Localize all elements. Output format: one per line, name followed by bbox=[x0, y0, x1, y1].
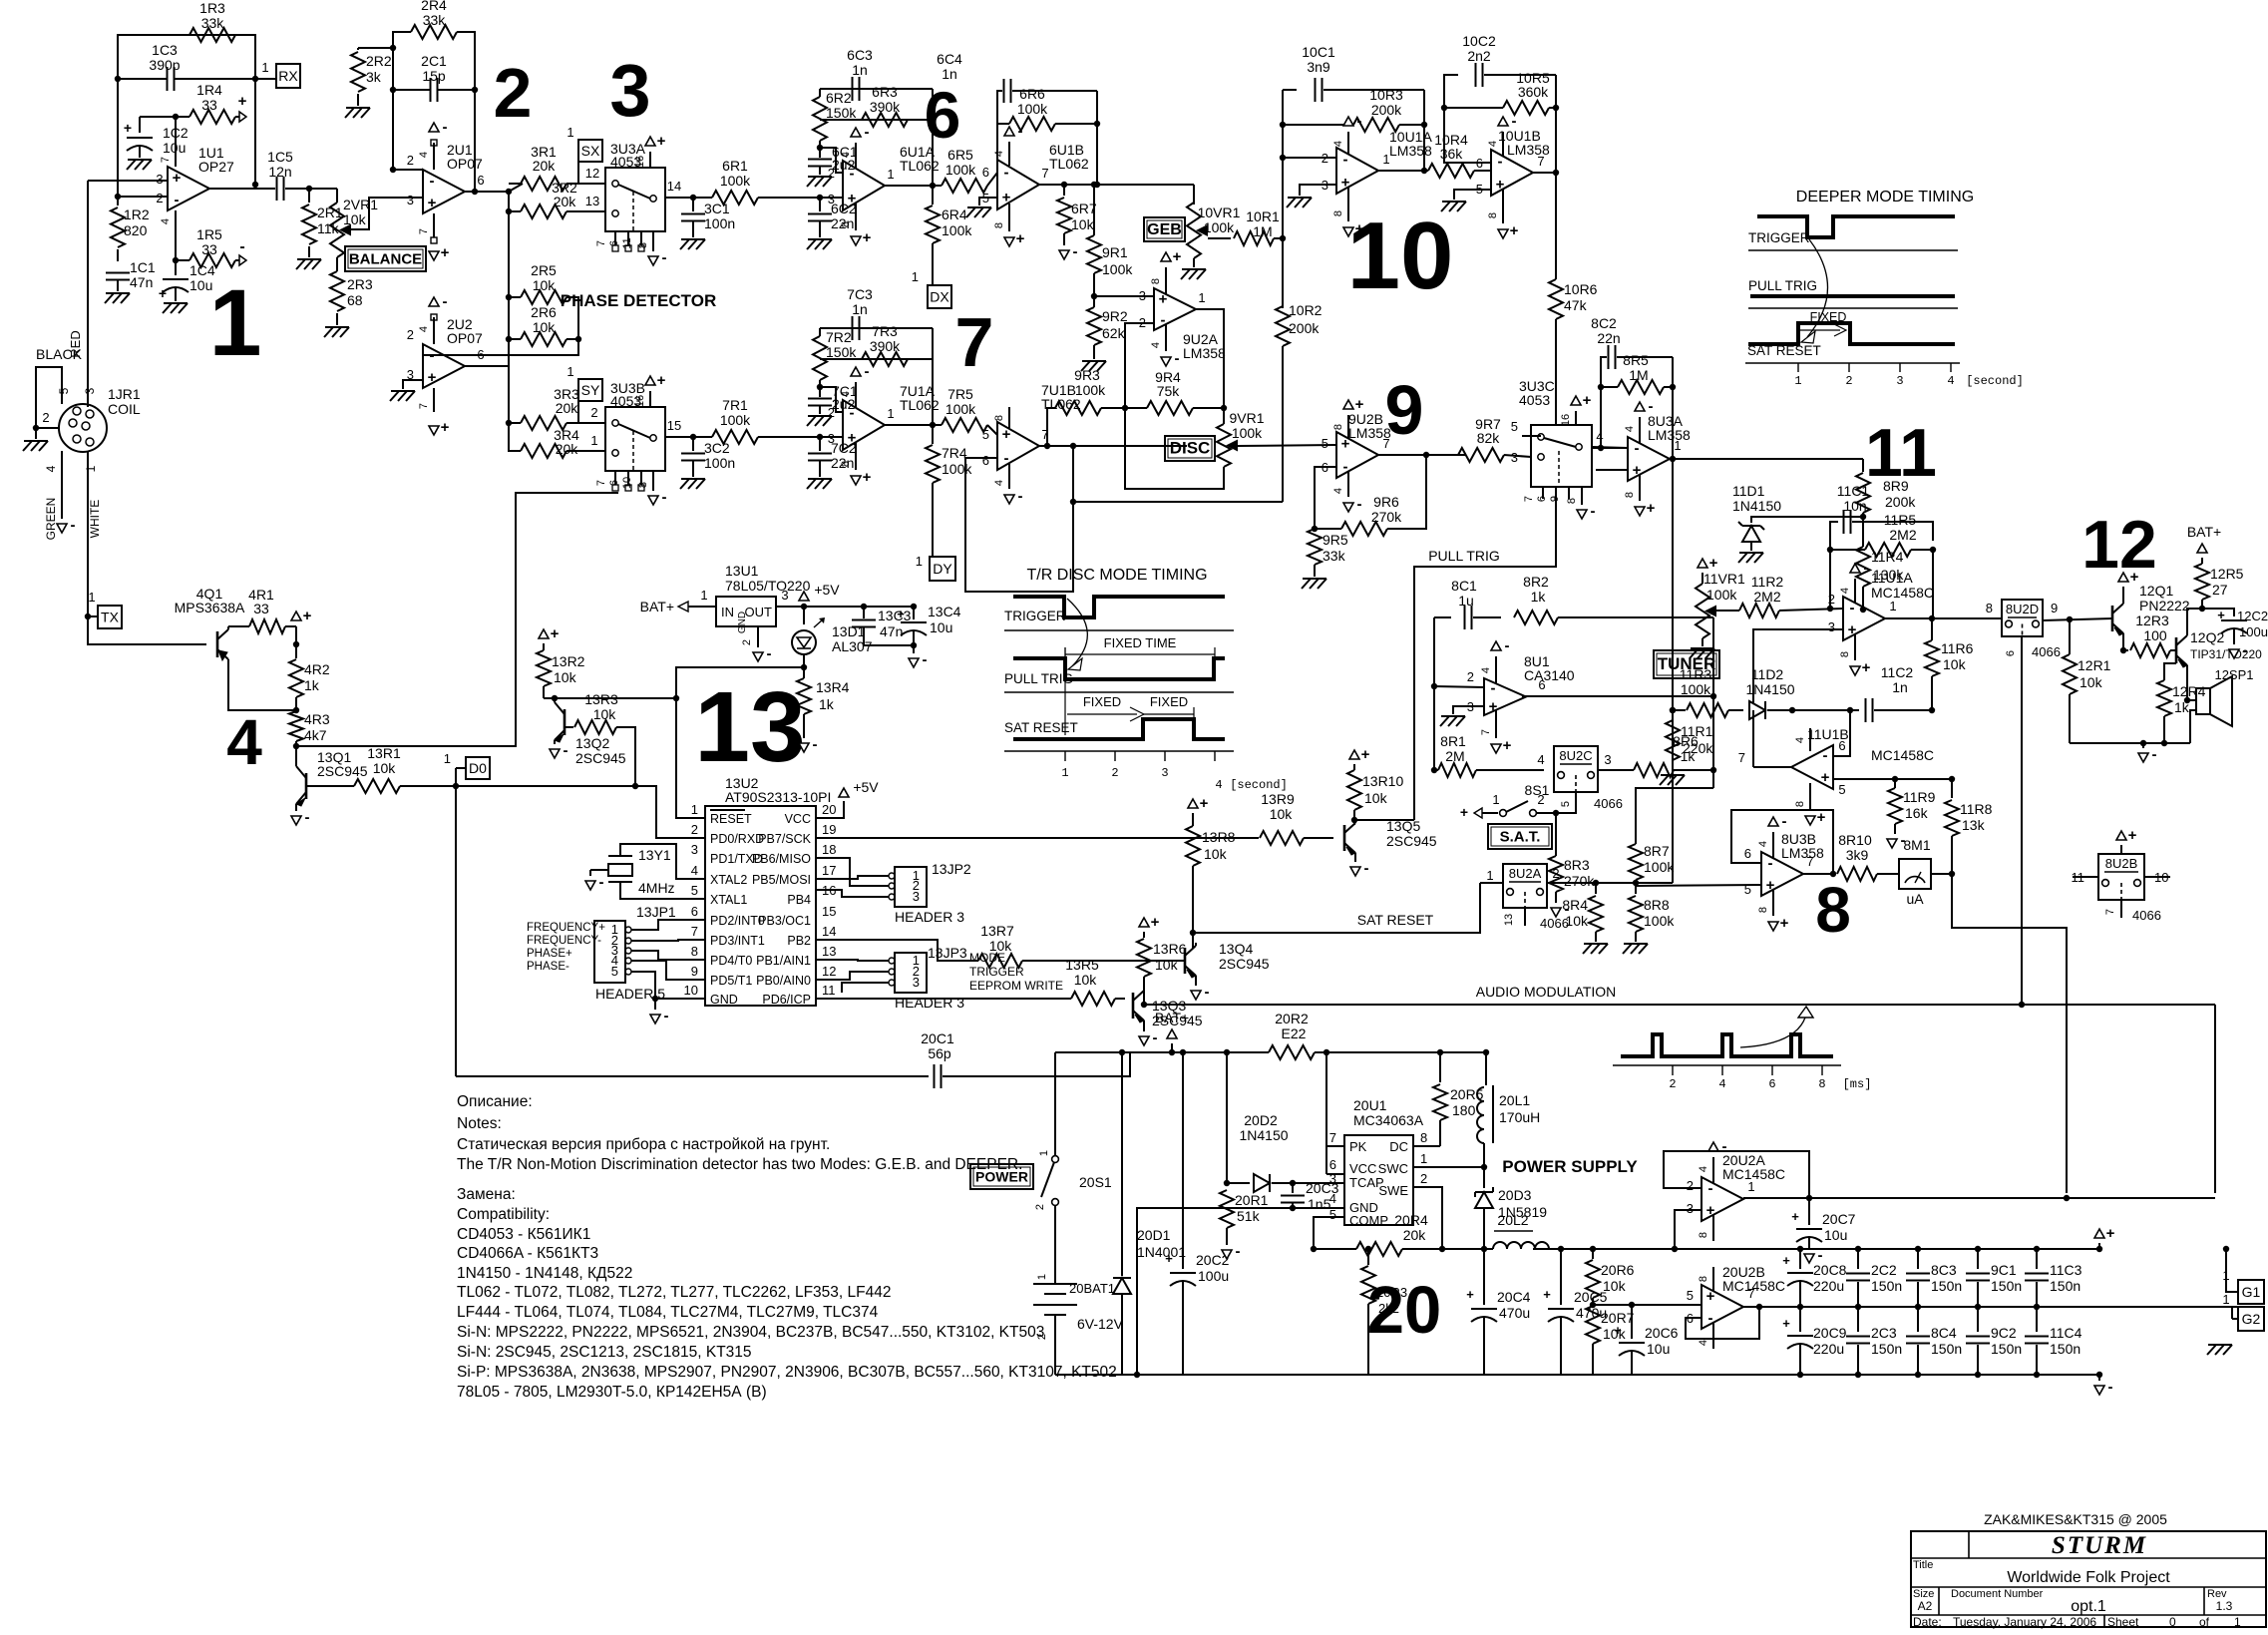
svg-text:11R5: 11R5 bbox=[1884, 512, 1917, 528]
svg-text:+: + bbox=[428, 369, 437, 386]
pin7 power stub 1U1 bbox=[175, 155, 177, 167]
power stub 11U1A bottom bbox=[1854, 634, 1856, 660]
node 6R2 bottom bbox=[819, 141, 821, 148]
svg-text:PB1/AIN1: PB1/AIN1 bbox=[756, 954, 811, 968]
op-amp 20U2B MC1458C bbox=[1701, 1285, 1743, 1329]
svg-text:2: 2 bbox=[1467, 669, 1474, 684]
node 10R1 10R2 bbox=[1280, 235, 1286, 241]
wire 3U3C out pin4 bbox=[1592, 447, 1628, 448]
svg-text:+: + bbox=[1173, 248, 1182, 265]
node 8R9 11D1 bbox=[1860, 514, 1866, 520]
wire 2U1 output bbox=[465, 191, 509, 193]
svg-text:1: 1 bbox=[887, 406, 894, 421]
capacitor 10C2 bbox=[1475, 63, 1477, 87]
svg-text:8: 8 bbox=[1487, 212, 1499, 218]
resistor 13R5 bbox=[1071, 992, 1115, 1006]
svg-text:10k: 10k bbox=[373, 760, 397, 776]
svg-text:+: + bbox=[863, 469, 872, 486]
capacitor 7C1 bbox=[819, 387, 821, 397]
svg-text:8: 8 bbox=[840, 221, 852, 227]
svg-text:5: 5 bbox=[1687, 1288, 1694, 1303]
svg-text:2: 2 bbox=[590, 405, 597, 420]
pot 9VR1 DISC bbox=[1223, 408, 1225, 424]
svg-text:6R4: 6R4 bbox=[942, 206, 967, 222]
svg-text:20k: 20k bbox=[556, 400, 579, 416]
header 13JP2 bbox=[895, 867, 927, 907]
svg-text:COMP: COMP bbox=[1349, 1213, 1388, 1228]
power arrow 3U3C minus bbox=[1577, 510, 1587, 519]
svg-text:20: 20 bbox=[822, 802, 836, 817]
svg-text:-: - bbox=[175, 192, 180, 208]
power arrow minus bus bbox=[2098, 1375, 2100, 1381]
capacitor 20C8 bbox=[1797, 1246, 1803, 1252]
pull trig waveform deeper bbox=[1750, 294, 1955, 298]
svg-text:-: - bbox=[865, 363, 870, 380]
svg-text:BALANCE: BALANCE bbox=[349, 251, 422, 268]
svg-text:2: 2 bbox=[1552, 866, 1559, 881]
wire 10R2 tail bbox=[1073, 501, 1283, 503]
svg-text:13: 13 bbox=[585, 194, 599, 208]
svg-text:PULL TRIG: PULL TRIG bbox=[1748, 278, 1817, 293]
svg-text:170uH: 170uH bbox=[1499, 1109, 1540, 1125]
wire 20R6 to 20U2B pin5 bbox=[1593, 1304, 1701, 1306]
resistor 6R1 bbox=[693, 197, 712, 199]
svg-text:390p: 390p bbox=[149, 57, 180, 73]
power pin16 3U3C bbox=[1575, 411, 1577, 425]
capacitor 20C4 bbox=[1483, 1249, 1485, 1305]
svg-text:2R2: 2R2 bbox=[366, 53, 392, 69]
resistor 13R2 bbox=[537, 650, 551, 686]
svg-text:OUT: OUT bbox=[745, 605, 773, 619]
trigger waveform disc bbox=[1013, 597, 1225, 617]
svg-text:3n9: 3n9 bbox=[1307, 59, 1330, 75]
svg-text:1n: 1n bbox=[852, 301, 868, 317]
svg-text:7: 7 bbox=[1537, 154, 1544, 169]
svg-text:2: 2 bbox=[1322, 151, 1328, 166]
svg-text:+: + bbox=[657, 372, 666, 389]
wire crystal top bbox=[620, 844, 705, 879]
ground coil bbox=[35, 428, 37, 439]
ground mcu bbox=[654, 999, 656, 1010]
svg-text:+: + bbox=[428, 195, 437, 211]
svg-text:-: - bbox=[1357, 113, 1362, 130]
svg-text:Si-P: MPS3638A, 2N3638, MPS290: Si-P: MPS3638A, 2N3638, MPS2907, PN2907,… bbox=[457, 1364, 1117, 1381]
svg-text:6C4: 6C4 bbox=[937, 51, 962, 67]
svg-text:4: 4 bbox=[44, 465, 58, 472]
svg-text:8: 8 bbox=[1839, 651, 1851, 657]
svg-text:+5V: +5V bbox=[814, 582, 840, 598]
power stub 8U3A top bbox=[1639, 417, 1641, 443]
svg-text:9: 9 bbox=[2051, 601, 2058, 615]
svg-text:2C1: 2C1 bbox=[421, 53, 447, 69]
capacitor 2C1 bbox=[430, 78, 432, 102]
svg-text:-: - bbox=[239, 238, 244, 255]
svg-text:1: 1 bbox=[1486, 868, 1493, 883]
svg-text:7: 7 bbox=[1806, 854, 1813, 869]
wire 7 pin2 bbox=[820, 387, 843, 412]
svg-text:7: 7 bbox=[595, 480, 607, 486]
svg-text:13Y1: 13Y1 bbox=[638, 847, 671, 863]
svg-text:100k: 100k bbox=[945, 162, 976, 178]
svg-text:9C1: 9C1 bbox=[1991, 1262, 2017, 1278]
wire 13Q4 emitter bbox=[1195, 979, 1197, 986]
svg-text:PHASE DETECTOR: PHASE DETECTOR bbox=[561, 291, 717, 310]
resistor 13R10 bbox=[1347, 770, 1361, 810]
svg-text:10k: 10k bbox=[1565, 913, 1589, 929]
svg-text:PB0/AIN0: PB0/AIN0 bbox=[756, 974, 811, 988]
svg-text:13: 13 bbox=[822, 944, 836, 959]
svg-text:220u: 220u bbox=[1813, 1341, 1844, 1357]
svg-text:20BAT1: 20BAT1 bbox=[1069, 1281, 1115, 1296]
op-amp 8U1 CA3140 bbox=[1484, 678, 1526, 715]
svg-text:10k: 10k bbox=[1155, 957, 1179, 973]
svg-text:4053: 4053 bbox=[1519, 392, 1550, 408]
svg-text:1: 1 bbox=[2234, 1615, 2241, 1629]
svg-text:3C2: 3C2 bbox=[704, 440, 730, 456]
wire 10U1A output bbox=[1378, 170, 1428, 172]
analog switch 8U2B 4066 bbox=[2116, 831, 2126, 840]
svg-text:1n5: 1n5 bbox=[1308, 1196, 1331, 1212]
svg-text:13k: 13k bbox=[1962, 817, 1986, 833]
wire pin14 to 13R7 bbox=[816, 940, 978, 961]
svg-text:10k: 10k bbox=[593, 706, 617, 722]
analog switch 8U2A 4066 bbox=[1503, 864, 1547, 908]
svg-text:VCC: VCC bbox=[785, 812, 811, 826]
svg-text:3: 3 bbox=[1161, 766, 1168, 780]
svg-text:5: 5 bbox=[1560, 801, 1572, 807]
svg-text:11D2: 11D2 bbox=[1751, 666, 1784, 682]
capacitor 11C3 bbox=[2034, 1246, 2040, 1252]
power +5V arrow 13U1 bbox=[799, 592, 809, 601]
resistor 12R4 bbox=[2157, 680, 2171, 716]
svg-text:4: 4 bbox=[1480, 667, 1492, 673]
svg-text:13R8: 13R8 bbox=[1202, 829, 1236, 845]
svg-text:D0: D0 bbox=[469, 760, 487, 776]
pot 2VR1 balance bbox=[336, 189, 338, 203]
svg-text:SY: SY bbox=[581, 382, 600, 398]
wire 11C1 loop left bbox=[1830, 522, 1838, 609]
power stub 2U2 top bbox=[433, 317, 435, 344]
wire LED node to RESET net bbox=[676, 667, 804, 818]
svg-text:1: 1 bbox=[1420, 1151, 1427, 1166]
wire BLACK loop bbox=[36, 367, 62, 428]
svg-text:10u: 10u bbox=[189, 277, 212, 293]
svg-text:2n2: 2n2 bbox=[1467, 48, 1491, 64]
svg-text:PHASE+: PHASE+ bbox=[527, 948, 572, 960]
svg-text:12: 12 bbox=[822, 964, 836, 979]
svg-text:-: - bbox=[1782, 813, 1787, 830]
wire minus bus bbox=[1055, 1374, 2099, 1376]
svg-text:1: 1 bbox=[444, 751, 451, 766]
svg-text:5: 5 bbox=[1322, 436, 1328, 451]
svg-text:4MHz: 4MHz bbox=[638, 880, 675, 896]
svg-text:820: 820 bbox=[124, 222, 148, 238]
power stub 11U1B bottom bbox=[1809, 783, 1811, 810]
svg-text:+: + bbox=[1782, 1253, 1790, 1268]
label SAT box bbox=[1488, 824, 1552, 849]
coil connector 1JR1 bbox=[59, 404, 107, 452]
svg-text:-: - bbox=[1161, 312, 1166, 329]
svg-text:MPS3638A: MPS3638A bbox=[175, 600, 245, 615]
svg-text:Tuesday, January 24, 2006: Tuesday, January 24, 2006 bbox=[1953, 1615, 2096, 1629]
resistor 2R1 bbox=[302, 204, 316, 244]
resistor 8R9 bbox=[1862, 459, 1864, 472]
svg-text:CD4066A - К561КТ3: CD4066A - К561КТ3 bbox=[457, 1245, 598, 1262]
resistor 2R3 bbox=[336, 257, 338, 271]
op-amp 6U1B TL062 bbox=[997, 160, 1039, 209]
node 13R3 D0 bbox=[632, 783, 638, 789]
svg-text:+: + bbox=[551, 625, 560, 642]
svg-text:-: - bbox=[850, 166, 855, 183]
svg-text:-: - bbox=[1205, 984, 1210, 1001]
ground below 3C1 bbox=[681, 238, 705, 240]
wire feedback loop top bbox=[118, 35, 255, 197]
svg-text:1N4150: 1N4150 bbox=[1745, 681, 1794, 697]
wire 20U2A output bbox=[1743, 1197, 2215, 1199]
svg-text:-: - bbox=[1864, 560, 1869, 577]
resistor 13R3 bbox=[565, 726, 573, 728]
resistor 9R2 bbox=[1093, 296, 1095, 307]
svg-text:9R3: 9R3 bbox=[1074, 367, 1100, 383]
svg-text:1: 1 bbox=[84, 465, 98, 472]
svg-text:-: - bbox=[662, 249, 667, 266]
svg-text:13R10: 13R10 bbox=[1362, 773, 1403, 789]
svg-text:8: 8 bbox=[1698, 1276, 1709, 1282]
node 13Q4 collector bbox=[1190, 930, 1196, 936]
svg-text:1C4: 1C4 bbox=[189, 262, 215, 278]
svg-text:12Q1: 12Q1 bbox=[2139, 583, 2173, 599]
power arrow coil minus bbox=[61, 504, 63, 519]
resistor 8R4 bbox=[1595, 886, 1597, 894]
svg-text:9C2: 9C2 bbox=[1991, 1325, 2017, 1341]
arc arrow disc bbox=[1067, 599, 1087, 666]
power stub 6U1B bottom bbox=[1008, 204, 1010, 231]
svg-text:20k: 20k bbox=[1403, 1227, 1427, 1243]
svg-text:STURM: STURM bbox=[2052, 1532, 2147, 1559]
separator line deeper 2 bbox=[1748, 307, 1958, 309]
svg-text:10u: 10u bbox=[163, 140, 186, 156]
ic 20U1 MC34063A bbox=[1344, 1135, 1413, 1225]
svg-text:9R1: 9R1 bbox=[1102, 244, 1128, 260]
op-amp 11U1A MC1458C bbox=[1843, 597, 1885, 640]
svg-text:-: - bbox=[564, 742, 568, 759]
svg-text:10k: 10k bbox=[533, 319, 557, 335]
svg-text:Замена:: Замена: bbox=[457, 1186, 516, 1203]
svg-text:7: 7 bbox=[418, 228, 430, 234]
svg-text:PB2: PB2 bbox=[787, 934, 811, 948]
svg-text:7: 7 bbox=[160, 157, 172, 163]
op-amp 2U2 OP07 bbox=[423, 344, 465, 388]
svg-text:GREEN: GREEN bbox=[44, 498, 58, 541]
svg-text:13R2: 13R2 bbox=[552, 653, 585, 669]
wire 8U3A pin2 bbox=[1592, 447, 1628, 449]
svg-text:-: - bbox=[767, 645, 772, 662]
svg-text:2: 2 bbox=[1845, 374, 1852, 388]
svg-text:1k: 1k bbox=[819, 696, 835, 712]
svg-text:10k: 10k bbox=[1364, 790, 1388, 806]
pulse train waveform bbox=[1621, 1034, 1833, 1056]
svg-text:200k: 200k bbox=[1885, 494, 1916, 510]
svg-text:7R1: 7R1 bbox=[722, 397, 748, 413]
power 12Q1 plus bbox=[2118, 573, 2128, 582]
svg-text:+: + bbox=[1583, 392, 1592, 409]
resistor 8R10 bbox=[1837, 867, 1877, 881]
svg-text:LM358: LM358 bbox=[1648, 427, 1691, 443]
wire 8U1 pin2 bbox=[1434, 686, 1484, 687]
svg-text:-: - bbox=[1357, 496, 1362, 513]
svg-text:PD4/T0: PD4/T0 bbox=[710, 954, 752, 968]
resistor 6R5 bbox=[933, 185, 942, 187]
svg-text:12R3: 12R3 bbox=[2135, 613, 2169, 628]
svg-text:6: 6 bbox=[1768, 1077, 1775, 1091]
svg-text:1C3: 1C3 bbox=[152, 42, 178, 58]
svg-text:-: - bbox=[1018, 488, 1023, 505]
power stub 10U1A bottom bbox=[1347, 188, 1349, 221]
svg-text:4: 4 bbox=[993, 480, 1005, 486]
svg-text:-: - bbox=[443, 293, 448, 310]
wire to speaker top bbox=[2187, 699, 2196, 701]
capacitor 6C1 bbox=[819, 148, 821, 158]
svg-text:+: + bbox=[1361, 746, 1370, 763]
pins below 3U3A bbox=[614, 231, 616, 245]
svg-text:-: - bbox=[2108, 1379, 2113, 1396]
svg-text:47k: 47k bbox=[1564, 297, 1588, 313]
capacitor 20C5 bbox=[1560, 1249, 1562, 1305]
svg-text:1N4150: 1N4150 bbox=[1239, 1127, 1288, 1143]
svg-text:-: - bbox=[599, 874, 604, 891]
wire G1 bbox=[2226, 1249, 2238, 1292]
op-amp 8U3A LM358 bbox=[1628, 437, 1670, 481]
svg-text:2: 2 bbox=[1828, 592, 1835, 607]
svg-text:opt.1: opt.1 bbox=[2071, 1598, 2106, 1615]
svg-text:11: 11 bbox=[822, 983, 836, 998]
resistor 2R4 bbox=[411, 25, 457, 39]
svg-text:1: 1 bbox=[1747, 1179, 1754, 1194]
svg-text:4: 4 bbox=[1718, 1077, 1725, 1091]
wire 8U3B output bbox=[1803, 873, 1835, 875]
svg-text:PULL TRIG: PULL TRIG bbox=[1004, 671, 1073, 686]
svg-text:20k: 20k bbox=[554, 194, 577, 209]
svg-text:VCC: VCC bbox=[1349, 1161, 1376, 1176]
svg-text:62k: 62k bbox=[1102, 325, 1126, 341]
wire 20U2B output bbox=[1743, 1306, 2238, 1308]
transistor 12Q2 TIP31 bbox=[2175, 637, 2178, 663]
power stub 9U2A top bbox=[1165, 267, 1167, 294]
svg-text:1k: 1k bbox=[304, 677, 320, 693]
wire 6U1A output bbox=[885, 185, 933, 187]
svg-text:78L05 - 7805, LM2930T-5.0, КР1: 78L05 - 7805, LM2930T-5.0, КР142ЕН5А (В) bbox=[457, 1384, 767, 1401]
analog switch 8U2C 4066 bbox=[1554, 746, 1598, 792]
svg-text:22n: 22n bbox=[1597, 330, 1620, 346]
svg-text:11C1: 11C1 bbox=[1837, 483, 1870, 499]
wire 9U2B pin6 loop bbox=[1315, 467, 1336, 529]
wire 8R6 to 8R7 node bbox=[1712, 770, 1714, 788]
svg-text:-: - bbox=[813, 736, 818, 753]
svg-text:1: 1 bbox=[590, 433, 597, 448]
wire crystal bottom bbox=[620, 882, 705, 899]
svg-text:PN2222: PN2222 bbox=[2139, 598, 2190, 613]
resistor 6R3 bbox=[862, 113, 908, 127]
svg-text:1N4150 - 1N4148, КД522: 1N4150 - 1N4148, КД522 bbox=[457, 1265, 632, 1282]
svg-text:4: 4 bbox=[840, 152, 852, 158]
svg-text:3: 3 bbox=[83, 387, 97, 394]
wire D0 down bbox=[455, 786, 457, 1076]
svg-text:13JP2: 13JP2 bbox=[932, 861, 971, 877]
svg-text:13R9: 13R9 bbox=[1261, 791, 1295, 807]
resistor 10R5 bbox=[1444, 107, 1503, 109]
switch 20S1 bbox=[1054, 1052, 1056, 1155]
power 11R9 minus bbox=[1887, 839, 1897, 848]
wire 8U3B pin6 loop bbox=[1731, 810, 1833, 874]
svg-text:13Q4: 13Q4 bbox=[1219, 941, 1253, 957]
resistor 9R4 bbox=[1125, 407, 1147, 409]
wire 6 feedback loops bbox=[820, 88, 933, 90]
resistor 6R7 bbox=[1061, 182, 1067, 188]
resistor 8R8 bbox=[1635, 886, 1637, 894]
svg-text:RESET: RESET bbox=[710, 812, 752, 826]
capacitor 13C3 bbox=[863, 607, 865, 618]
svg-text:-: - bbox=[1591, 503, 1596, 520]
svg-text:8U2C: 8U2C bbox=[1559, 748, 1592, 763]
svg-text:7R2: 7R2 bbox=[826, 329, 852, 345]
wire 4Q1 emitter to 4R2 bottom bbox=[228, 662, 296, 710]
svg-text:8R5: 8R5 bbox=[1623, 352, 1649, 368]
wires 13JP2 bbox=[816, 876, 889, 879]
svg-text:100n: 100n bbox=[704, 215, 735, 231]
svg-text:12R5: 12R5 bbox=[2210, 566, 2244, 582]
resistor 8R5 bbox=[1601, 386, 1618, 388]
svg-text:8: 8 bbox=[1818, 1077, 1825, 1091]
svg-text:8: 8 bbox=[1150, 278, 1162, 284]
diode 20D2 bbox=[1227, 1182, 1250, 1184]
svg-text:33: 33 bbox=[201, 241, 217, 257]
svg-text:12n: 12n bbox=[268, 164, 291, 180]
svg-text:CA3140: CA3140 bbox=[1524, 667, 1575, 683]
svg-text:150n: 150n bbox=[1871, 1341, 1902, 1357]
svg-text:5: 5 bbox=[57, 387, 71, 394]
svg-text:-: - bbox=[865, 124, 870, 141]
node 7R2 bottom bbox=[819, 380, 821, 387]
wire 1U1 pin2 bbox=[118, 196, 168, 198]
pin4 power stub 1U1 bbox=[175, 210, 177, 223]
svg-text:2SC945: 2SC945 bbox=[1219, 956, 1270, 972]
transistor 13Q5 2SC945 bbox=[1343, 825, 1346, 851]
arc arrow deeper bbox=[1807, 239, 1828, 337]
svg-text:SWC: SWC bbox=[1378, 1161, 1408, 1176]
svg-text:11: 11 bbox=[621, 237, 633, 248]
svg-text:OP27: OP27 bbox=[198, 159, 234, 175]
label GEB bbox=[1144, 217, 1185, 241]
capacitor 10C1 bbox=[1283, 89, 1297, 91]
svg-text:6: 6 bbox=[477, 173, 484, 188]
wire 8U2D pin6 down bbox=[2021, 636, 2023, 1005]
capacitor 20C6 bbox=[1629, 1302, 1635, 1308]
power stub 2U1 bottom bbox=[433, 213, 435, 237]
svg-text:+: + bbox=[1543, 1287, 1551, 1302]
svg-text:10C2: 10C2 bbox=[1462, 33, 1496, 49]
svg-text:10k: 10k bbox=[1603, 1278, 1627, 1294]
svg-text:6: 6 bbox=[1838, 738, 1845, 753]
power 8R3 minus bbox=[1551, 908, 1561, 917]
pins below 3U3B bbox=[614, 471, 616, 485]
svg-text:11R8: 11R8 bbox=[1960, 801, 1993, 817]
power stub 7U1B bottom bbox=[1008, 464, 1010, 489]
svg-text:1: 1 bbox=[691, 802, 698, 817]
wire 10C2 right bbox=[1555, 75, 1557, 173]
regulator 13U1 78L05 bbox=[716, 597, 776, 626]
svg-text:11R2: 11R2 bbox=[1751, 574, 1784, 590]
svg-text:-: - bbox=[1823, 747, 1828, 764]
